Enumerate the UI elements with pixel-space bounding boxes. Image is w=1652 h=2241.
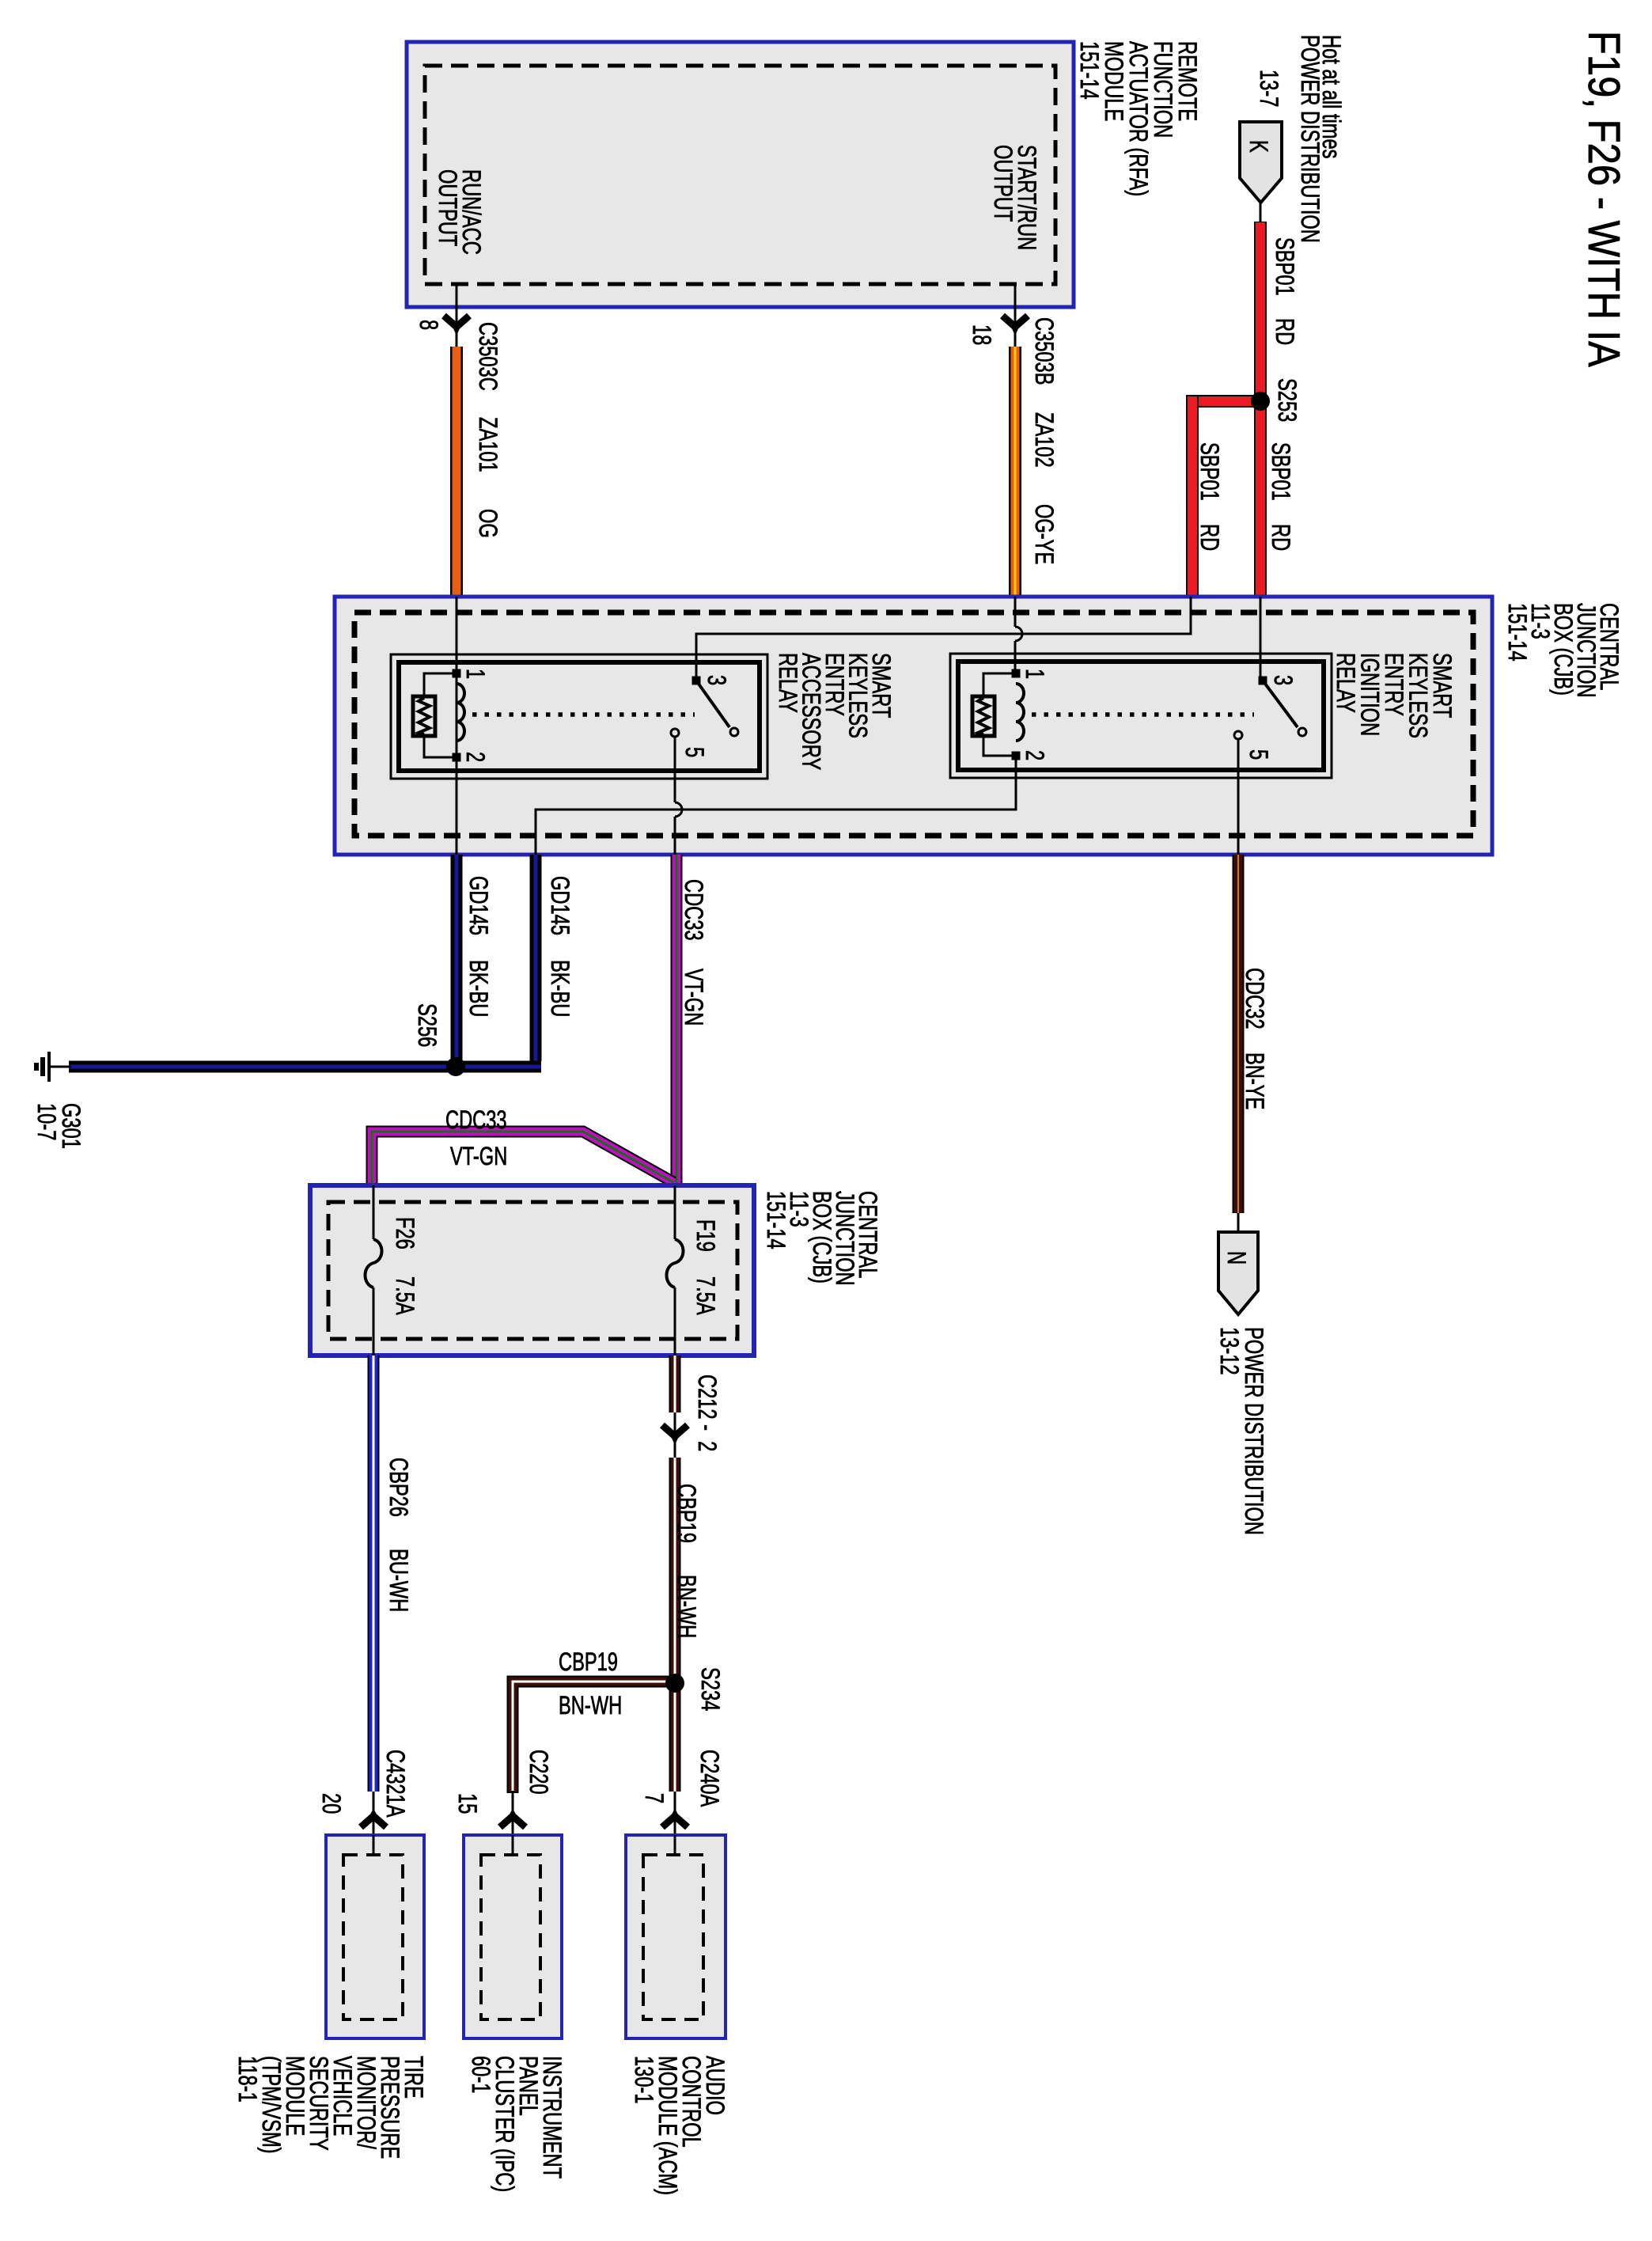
svg-text:VT-GN: VT-GN (680, 969, 707, 1026)
module TPM/VSM dashed inner border (343, 1855, 403, 2019)
svg-text:GD145: GD145 (546, 876, 574, 935)
relay accessory coil resistor box (413, 673, 457, 757)
relay accessory outer box (391, 654, 767, 779)
svg-text:MODULE: MODULE (1100, 41, 1127, 121)
svg-text:RD: RD (1195, 524, 1223, 551)
wire SBP01 RD branch (S253 to CJB) (1186, 395, 1265, 597)
svg-text:7.5A: 7.5A (691, 1276, 719, 1315)
wire ZA101 OG (450, 347, 463, 597)
wire lead to C4321A (373, 1792, 375, 1855)
svg-text:7: 7 (640, 1793, 668, 1803)
svg-text:C3503C: C3503C (474, 322, 502, 391)
svg-text:CBP19: CBP19 (559, 1648, 618, 1676)
label INSTRUMENT PANEL CLUSTER (IPC) 60-1 (467, 2056, 566, 2192)
connector arrow C3503C (pin 8) (444, 316, 469, 336)
connector K (power distribution) (1240, 122, 1282, 203)
svg-text:BN-WH: BN-WH (559, 1692, 622, 1720)
svg-text:FUNCTION: FUNCTION (1149, 41, 1176, 138)
connector arrow C240A (pin 7, ACM) (662, 1808, 688, 1827)
svg-text:BN-WH: BN-WH (673, 1575, 700, 1638)
svg-text:ACTUATOR (RFA): ACTUATOR (RFA) (1124, 41, 1152, 196)
relay ignition coil inductor humps (1016, 684, 1024, 741)
svg-text:BK-BU: BK-BU (546, 960, 574, 1017)
relay accessory inner box (399, 662, 760, 771)
relay accessory switch blade (696, 681, 729, 727)
wire lead to N connector (1237, 1213, 1240, 1234)
wire ignition pin3 feed from SBP01 main (1260, 597, 1262, 681)
svg-text:POWER DISTRIBUTION: POWER DISTRIBUTION (1240, 1327, 1267, 1535)
svg-text:13-12: 13-12 (1215, 1327, 1243, 1375)
module CJB fuse box dashed inner border (328, 1202, 737, 1339)
svg-text:ZA101: ZA101 (474, 417, 502, 472)
fuse F19 7.5A (667, 1185, 684, 1356)
module ACM dashed inner border (643, 1855, 703, 2019)
wire ZA102 OG-YE (1009, 347, 1021, 597)
ground bus wire to G301 (69, 1061, 541, 1073)
label REMOTE FUNCTION ACTUATOR (RFA) MODULE 151-14 (1075, 41, 1201, 196)
svg-text:C212 - 2: C212 - 2 (693, 1375, 721, 1451)
svg-text:S234: S234 (696, 1667, 724, 1711)
connector arrow C4321A (pin 20, TPM/VSM) (361, 1808, 386, 1827)
module TPM/VSM box (326, 1835, 424, 2038)
module RFA dashed inner border (425, 66, 1055, 284)
label SMART KEYLESS ENTRY ACCESSORY RELAY (774, 653, 895, 770)
wire SBP01 RD main (K to CJB) (1254, 222, 1267, 597)
svg-text:5: 5 (680, 747, 708, 757)
relay ignition outer box (950, 654, 1332, 778)
svg-text:OUTPUT: OUTPUT (434, 169, 461, 246)
svg-text:8: 8 (415, 320, 442, 330)
svg-text:REMOTE: REMOTE (1173, 41, 1201, 121)
svg-text:GD145: GD145 (464, 876, 492, 935)
svg-text:C4321A: C4321A (381, 1750, 409, 1818)
relay ignition pin 3 (1259, 677, 1267, 685)
wire ignition coil ground route (pin2 to GD145) (536, 756, 1016, 855)
fuse F26 7.5A (366, 1185, 382, 1356)
svg-text:C3503B: C3503B (1030, 317, 1058, 385)
relay ignition inner box (958, 662, 1324, 770)
pin 8 lead of RFA (456, 284, 458, 348)
wire CBP19 BN-WH (upper, F19 to C212) (669, 1356, 681, 1412)
wire CDC33 VT-GN (vertical from CJB) (671, 855, 683, 1183)
wire GD145 BK-BU (ignition coil ground) (530, 855, 542, 1061)
svg-text:VT-GN: VT-GN (450, 1143, 507, 1170)
relay ignition switch blade (1263, 681, 1298, 727)
svg-text:BK-BU: BK-BU (464, 960, 492, 1017)
wire CBP26 BU-WH (368, 1356, 380, 1792)
module RFA box (407, 42, 1074, 307)
wire lead inside ACM box (674, 1835, 676, 1855)
relay accessory pin 2 (453, 753, 461, 762)
label POWER DISTRIBUTION 13-12 (1215, 1327, 1267, 1535)
label SMART KEYLESS ENTRY IGNITION RELAY (1332, 653, 1456, 738)
svg-text:G301: G301 (57, 1103, 85, 1149)
svg-text:15: 15 (453, 1793, 481, 1814)
svg-text:7.5A: 7.5A (391, 1276, 419, 1315)
connector arrow C220 (pin 15, IPC) (500, 1808, 525, 1827)
module CJB fuse box (310, 1185, 754, 1356)
svg-text:CBP19: CBP19 (673, 1484, 700, 1543)
module CJB box (relays) (335, 597, 1492, 855)
svg-text:C240A: C240A (695, 1750, 723, 1807)
svg-text:F19: F19 (691, 1219, 719, 1252)
label START/RUN OUTPUT (989, 145, 1040, 250)
svg-text:RELAY: RELAY (1332, 653, 1359, 713)
svg-text:20: 20 (317, 1793, 345, 1814)
svg-text:N: N (1222, 1251, 1250, 1265)
module IPC dashed inner border (481, 1855, 540, 2019)
svg-text:3: 3 (703, 675, 730, 685)
svg-text:151-14: 151-14 (762, 1191, 790, 1249)
pin 18 lead of RFA (1014, 284, 1017, 348)
svg-text:RD: RD (1267, 524, 1294, 551)
splice S253 (1251, 392, 1270, 411)
wire lead to C220 (512, 1792, 514, 1855)
svg-text:3: 3 (1269, 675, 1297, 685)
svg-text:C220: C220 (525, 1750, 552, 1795)
svg-text:S256: S256 (413, 1003, 441, 1047)
svg-text:13-7: 13-7 (1255, 70, 1283, 107)
svg-text:SBP01: SBP01 (1271, 237, 1298, 296)
wire CBP19 BN-WH branch to IPC (513, 1682, 677, 1793)
svg-text:BN-YE: BN-YE (1241, 1052, 1268, 1109)
svg-text:118-1: 118-1 (233, 2056, 261, 2103)
wire accessory coil feed (inside CJB, from ZA101) (456, 597, 458, 855)
wire accessory pin5 to CDC33 (with hop) (675, 737, 682, 855)
svg-text:CDC32: CDC32 (1241, 968, 1268, 1029)
wire lead to C240A (674, 1792, 676, 1855)
wire lead inside IPC box (512, 1835, 514, 1855)
svg-text:F19, F26 - WITH IA: F19, F26 - WITH IA (1578, 31, 1628, 367)
connector N (power distribution) (1218, 1232, 1258, 1314)
wire lead inside TPM/VSM box (373, 1835, 375, 1855)
label Hot at all times / POWER DISTRIBUTION (1296, 35, 1345, 243)
svg-text:K: K (1245, 140, 1272, 153)
svg-text:18: 18 (968, 324, 995, 345)
relay ignition blade end terminal (1298, 728, 1306, 736)
svg-text:OG: OG (474, 509, 502, 538)
wire lead from K (1260, 203, 1262, 223)
relay ignition coil resistor box (972, 673, 1016, 756)
relay accessory pin 5 terminal (671, 729, 679, 737)
label RUN/ACC OUTPUT (434, 169, 485, 255)
svg-text:POWER DISTRIBUTION: POWER DISTRIBUTION (1296, 35, 1324, 243)
svg-text:1: 1 (1021, 669, 1048, 679)
wire lead at C212-2 (674, 1412, 676, 1458)
svg-text:S253: S253 (1273, 378, 1301, 422)
splice S256 (446, 1057, 465, 1076)
svg-text:2: 2 (461, 752, 489, 762)
wire CBP19 BN-WH (C212 to S234 to C240A) (669, 1458, 681, 1792)
ground symbol G301 (36, 1052, 71, 1082)
svg-text:1: 1 (461, 669, 489, 679)
wire ignition pin5 to CDC32 (1237, 739, 1240, 855)
wire CDC33 VT-GN branch to F26 (372, 1132, 673, 1185)
svg-text:10-7: 10-7 (32, 1103, 60, 1140)
relay ignition pin 1 (1012, 669, 1021, 678)
relay ignition pin 2 (1012, 752, 1021, 760)
svg-text:CDC33: CDC33 (445, 1106, 507, 1134)
svg-text:OG-YE: OG-YE (1030, 504, 1058, 564)
svg-text:151-14: 151-14 (1503, 603, 1531, 662)
svg-text:OUTPUT: OUTPUT (989, 145, 1017, 222)
module ACM box (626, 1835, 726, 2038)
svg-text:RELAY: RELAY (774, 653, 801, 713)
svg-text:SBP01: SBP01 (1267, 442, 1294, 501)
relay accessory blade end terminal (730, 728, 738, 736)
svg-text:ZA102: ZA102 (1030, 412, 1058, 468)
svg-text:2: 2 (1021, 750, 1048, 760)
wire CDC32 BN-YE (1233, 855, 1245, 1213)
svg-text:BU-WH: BU-WH (385, 1549, 412, 1612)
svg-text:CBP26: CBP26 (385, 1458, 412, 1517)
label TIRE PRESSURE MONITOR/ VEHICLE SECURITY MODULE (TPM/VSM) 118-1 (233, 2056, 427, 2159)
module CJB dashed inner border (354, 612, 1473, 836)
splice S234 (665, 1674, 684, 1693)
svg-text:5: 5 (1245, 749, 1272, 760)
relay accessory dotted actuation line (472, 712, 695, 717)
label G301 10-7 (32, 1103, 85, 1149)
relay ignition dotted actuation line (1032, 712, 1254, 717)
label CENTRAL JUNCTION BOX (CJB) 11-3 151-14 (lower) (762, 1191, 881, 1286)
wire ignition coil feed (inside CJB, from ZA102) with hop (1015, 597, 1022, 673)
svg-text:60-1: 60-1 (467, 2056, 494, 2093)
relay accessory coil inductor humps (457, 684, 464, 741)
connector arrow C3503B (pin 18) (1002, 316, 1028, 336)
label AUDIO CONTROL MODULE (ACM) 130-1 (630, 2056, 729, 2195)
relay accessory pin 3 (692, 677, 701, 685)
wire accessory pin3 feed from SBP01 branch (696, 597, 1191, 681)
module IPC box (464, 1835, 562, 2038)
svg-text:151-14: 151-14 (1075, 41, 1103, 100)
svg-text:F26: F26 (391, 1217, 419, 1249)
svg-text:130-1: 130-1 (630, 2056, 657, 2104)
relay accessory pin 1 (453, 669, 461, 678)
label CENTRAL JUNCTION BOX (CJB) 11-3 151-14 (upper) (1503, 603, 1623, 698)
connector arrow C212-2 (662, 1425, 688, 1445)
wire GD145 BK-BU (accessory coil ground) (451, 855, 463, 1061)
svg-text:RD: RD (1271, 318, 1298, 345)
svg-text:CDC33: CDC33 (680, 879, 707, 941)
svg-text:SBP01: SBP01 (1195, 442, 1223, 501)
relay ignition pin 5 terminal (1234, 731, 1242, 739)
